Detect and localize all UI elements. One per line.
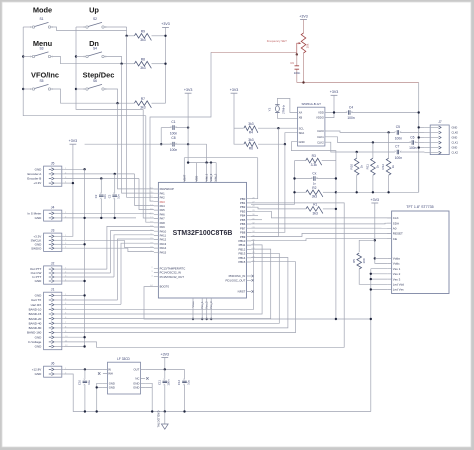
svg-text:VDD: VDD [194,176,198,182]
switch S4 [84,47,108,59]
junction vss [201,318,203,320]
svg-text:GND: GND [35,216,43,220]
no-connect [252,279,254,281]
junction pot bottom [302,81,304,83]
svg-text:C5: C5 [396,125,400,129]
svg-text:CLK2: CLK2 [317,140,324,144]
svg-text:3k3: 3k3 [140,66,145,70]
wire R3 right lead [322,160,336,162]
wire vdd pin drop [210,163,212,183]
junction c10 gnd [84,410,86,412]
resistor R11 [366,158,380,175]
resistor R12 [381,158,395,175]
svg-text:CLK0: CLK0 [317,129,324,133]
resistor R7 [134,97,151,110]
svg-text:RESET: RESET [393,232,403,236]
junction c12 gnd [183,410,185,412]
resistor R9 [134,29,151,42]
wire gnd bus right [418,83,420,193]
+3V3 power mcu b [230,88,239,93]
junction gnd bus a [418,111,420,113]
resistor R4 [244,122,258,135]
svg-text:10u: 10u [186,380,190,385]
junction encB cap [100,177,102,179]
svg-text:1k: 1k [391,165,395,169]
wire S4 left stub [76,56,86,58]
tft pin stubs [387,218,391,290]
wire tft a0 [251,227,392,229]
wire 3v3 out [164,358,166,370]
svg-text:3.3k: 3.3k [311,163,318,167]
wire +12V in [64,368,103,370]
capacitor C3 [112,192,117,199]
wire C6 to connector [415,142,425,144]
svg-text:3k3: 3k3 [248,138,253,142]
svg-text:LF 33CD: LF 33CD [117,357,130,361]
+3V3 power tft [371,198,380,203]
wire J3 gnd [64,243,85,245]
wire R8 right lead [152,63,166,65]
svg-text:Vdda: Vdda [393,257,400,261]
switch S3 [30,47,54,59]
no-connect [98,372,100,374]
svg-text:S2: S2 [93,17,97,21]
wire SCL row [258,127,298,129]
wire s meter to PA6 [64,212,154,215]
svg-text:+12.8V: +12.8V [32,368,42,372]
connector J6 [44,362,67,378]
wire pot bottom to ground bus [297,53,419,83]
capacitor C7 [395,150,402,155]
junction SCL [277,127,279,129]
wire J5 gnd [64,168,85,170]
junction Cx left [293,177,295,179]
wire col1 left bus [23,27,146,116]
wire S3 left stub [23,56,32,58]
connector J1 [44,288,69,350]
wire wiper to PA3 [150,52,211,201]
junction C1 right [187,126,189,128]
wire R9 net to PA2 [127,36,154,198]
svg-text:Uart RX: Uart RX [31,303,42,307]
wire si vdd [325,112,347,114]
svg-text:GND: GND [109,386,115,390]
junction reg out 3v3 [164,368,166,370]
svg-text:R8: R8 [141,57,145,61]
svg-text:100n: 100n [347,116,355,120]
wire clk load gnd rail [336,191,419,193]
wire reg gnd left drop [96,387,98,411]
wire Cx left lead [295,178,313,180]
wire gnd row J4 [64,217,136,219]
junction encA cap [114,173,116,175]
junction J7 gnd2 [418,136,420,138]
wire reg out [145,368,184,370]
resistor R5 [352,253,366,269]
svg-text:PB15: PB15 [238,260,245,264]
svg-text:BOOT0: BOOT0 [160,285,170,289]
wire vbat net [184,157,257,159]
svg-text:100n: 100n [395,136,403,140]
wire si gnd to rail [291,142,336,319]
connector J4 [44,206,67,222]
wire tft vss1 [371,268,387,270]
wire bus to PA pin [114,235,154,277]
junction S6 left [75,88,77,90]
wire vdd pin drop [206,163,208,183]
wire CLK0 row [325,131,395,132]
junction tft vss2 [370,273,372,275]
wire c12 bottom lead [184,385,186,412]
no-connect [252,275,254,277]
svg-text:J4: J4 [51,206,55,210]
junction vdd2 [210,161,212,163]
svg-text:3k3: 3k3 [140,106,145,110]
wire CLK1 row [325,137,411,143]
connector J7 CLK out [424,120,458,155]
svg-text:VFO/Inc: VFO/Inc [31,71,59,80]
svg-text:In Voltage: In Voltage [28,340,42,344]
wire R7 right lead [152,102,166,104]
svg-text:SDA: SDA [299,131,305,135]
svg-text:BAND-15: BAND-15 [29,312,42,316]
wire tft vdda [375,257,387,259]
no-connect [252,290,254,292]
wire vdd rail [188,162,216,164]
wire Cx right lead [316,178,336,180]
wire S5 left stub [23,88,32,90]
wire r5 to led vdd [359,269,387,284]
mcu left pin names [160,187,186,289]
junction J3 gnd [83,243,85,245]
svg-text:GND: GND [452,136,458,140]
junction clk1 load [372,141,374,143]
crystal Y2 27MHz [268,104,286,113]
wire in voltage loop [64,203,344,347]
svg-text:1k: 1k [359,165,363,169]
junction reg gnd left [96,410,98,412]
junction J2 gnd [83,280,85,282]
junction R9 left [125,35,127,37]
wire C3 bottom lead [114,198,116,218]
svg-text:100n: 100n [167,379,171,386]
junction C8 left [160,143,162,145]
svg-text:+3V3: +3V3 [184,88,193,92]
wire bus to PA pin [121,243,154,304]
svg-text:OUT: OUT [133,368,139,372]
wire R3 left lead [295,160,306,162]
wire pot wiper [211,51,297,53]
wire +3V3 pullup i2c [234,93,244,144]
wire R7 net to PA0 [118,103,154,189]
svg-text:BAND-20: BAND-20 [29,317,42,321]
wire band net [64,245,262,314]
wire R2 left lead [295,191,306,193]
wire PB0 up [251,158,258,199]
wire encoder A to PA4 [135,174,154,206]
switch S5 [30,79,54,91]
wire tft reset [251,233,392,236]
wire J5 3v3 stub [64,182,73,184]
svg-text:GND: GND [452,125,458,129]
svg-text:Cx: Cx [312,172,316,176]
wire S2 left [76,26,86,28]
svg-text:BAND-40: BAND-40 [29,321,42,325]
switch S6 [84,79,108,91]
svg-text:Encoder B: Encoder B [27,177,41,181]
svg-text:J7: J7 [438,120,442,124]
wire J1 gnd3 [64,346,85,348]
junction J1 gnd3 [83,345,85,347]
wire tft vss3 [371,278,387,280]
wire bus to PA pin [124,240,153,247]
capacitor C11 [163,379,168,386]
svg-text:GND: GND [35,335,43,339]
wire bus to PA pin [117,239,153,300]
svg-text:PC15/OSC32_OUT: PC15/OSC32_OUT [160,275,185,279]
svg-text:J2: J2 [51,261,55,265]
svg-text:R5: R5 [352,259,356,263]
wire R9 left lead [127,35,135,37]
svg-text:GND: GND [35,167,43,171]
svg-text:CLK: CLK [393,216,399,220]
svg-text:+3V3: +3V3 [330,90,339,94]
svg-text:J5: J5 [51,162,55,166]
svg-text:Y2: Y2 [268,107,272,111]
junction R12 gnd [387,191,389,193]
connector J5 [44,162,67,187]
wire swclk [64,239,125,241]
wire C5 to connector [400,131,425,133]
svg-text:+3V3: +3V3 [230,88,239,92]
wire bottom gnd rail [64,374,371,412]
wire J7 gnd2 [419,137,425,139]
svg-text:In S Meter: In S Meter [27,211,41,215]
connector J1 pin labels [27,294,42,349]
svg-text:+3V3: +3V3 [69,139,78,143]
junction J5 3v3 [72,182,74,184]
mcu pin numbers left [150,188,153,288]
capacitor C2 [99,192,104,199]
capacitor C12 [182,379,187,386]
wire band net [64,262,296,333]
svg-text:C7: C7 [395,145,399,149]
mcu vss drops [193,298,211,319]
svg-text:CLK1: CLK1 [317,135,324,139]
mcu U1 STM32F100C8T6B [158,182,246,298]
svg-text:C3: C3 [107,194,111,198]
wire R12 bottom lead [388,175,390,192]
wire band net [64,249,271,319]
wire c10 bottom lead [84,385,86,412]
+3V3 power switches [161,22,170,27]
svg-text:C4: C4 [349,106,353,110]
wire uart tx [64,299,118,301]
svg-text:S6: S6 [93,79,97,83]
wire swdio [64,247,128,249]
svg-text:100n: 100n [170,131,178,135]
wire bus to PA pin [110,231,153,273]
resistor R8 [134,57,151,70]
+3V3 power J5 [69,139,78,144]
wire CLK2 row [325,142,395,152]
wire encoder A [64,173,135,175]
svg-text:+3.3V: +3.3V [33,181,41,185]
wire gnd bus left [84,169,86,346]
svg-text:S1: S1 [39,17,43,21]
svg-text:Si5351A-B-GT: Si5351A-B-GT [301,102,321,106]
wire out ptt [64,268,107,270]
svg-text:C8: C8 [171,136,175,140]
wire R12 top lead [388,132,390,158]
svg-text:XB: XB [299,116,303,120]
no-connect [146,377,148,379]
wire C1-C8 left join [160,128,162,145]
junction S3 left [22,55,24,57]
wire tft gnd drop [370,269,372,412]
svg-text:BAND-10: BAND-10 [29,307,42,311]
junction pot wiper [296,53,298,55]
svg-text:C6: C6 [410,136,414,140]
mcu pin numbers right [252,197,255,262]
svg-text:C9: C9 [290,61,294,65]
capacitor C10 [83,379,88,386]
svg-text:100n: 100n [294,71,301,75]
svg-text:C12: C12 [177,379,181,385]
wire col2 left bus [76,27,143,109]
wire SDA jog [285,133,298,145]
svg-text:R11: R11 [366,164,370,170]
svg-text:100n: 100n [409,146,417,150]
wire reg gnd right drop [151,387,153,411]
svg-text:100n: 100n [170,148,178,152]
svg-text:Mode: Mode [33,6,52,15]
svg-text:+3V3: +3V3 [371,198,380,202]
wire col1 to PA8 [146,116,154,223]
svg-text:BAND-80: BAND-80 [29,326,42,330]
wire C1 right lead [176,127,189,129]
wire c12 top lead [184,369,186,379]
svg-text:CE: CE [393,237,397,241]
junction clk2 load [356,151,358,153]
wire reg gnd right join [145,383,152,387]
svg-text:1k: 1k [376,165,380,169]
junction tft vdda [374,257,376,259]
capacitor C4 [346,110,353,115]
wire R8 left lead [122,63,135,65]
svg-text:S5: S5 [39,79,43,83]
wire C8 to vdd rail [206,144,208,162]
junction si vdd [333,111,335,113]
wire band net [64,258,288,328]
wire J1 gnd2 [64,336,85,338]
wire out cw [64,272,111,274]
wire tft led vss [371,289,387,291]
wire SCL to PB9 [251,128,278,236]
svg-text:R7: R7 [141,97,145,101]
junction C2 gnd [100,217,102,219]
svg-text:Frequency SET: Frequency SET [267,39,287,43]
wire SDA to PB8 [251,144,285,232]
svg-text:GND: GND [133,386,139,390]
wire R1 right lead [323,208,336,210]
mcu top pin labels [182,173,217,181]
svg-text:SWDIO: SWDIO [31,246,42,250]
wire bus to PA pin [128,248,154,251]
resistor R1 [306,207,323,214]
wire J7 gnd1 [419,126,425,128]
junction R2 right [335,191,337,193]
svg-text:J1: J1 [51,288,55,292]
potentiometer RV1 Frequency SET [267,33,310,55]
svg-text:+3V3: +3V3 [161,352,170,356]
svg-text:Vdd_2: Vdd_2 [209,173,213,181]
wire C1 left lead [161,127,171,129]
wire r4 left lead [234,127,244,129]
wire vbat drop [183,158,185,183]
svg-text:Vdd_3: Vdd_3 [213,173,217,181]
wire S1 left [23,26,32,28]
+3V3 power pot [299,14,308,19]
junction R1 right [335,208,337,210]
svg-text:J3: J3 [51,229,55,233]
wire PB5 stub [251,219,262,221]
wire c11 bottom lead [164,385,166,412]
svg-text:GND: GND [35,294,43,298]
svg-text:10k: 10k [306,43,310,48]
junction tft vss3 [370,278,372,280]
junction R8 right [164,63,166,65]
wire band net [64,241,254,310]
svg-text:27MHz: 27MHz [281,104,285,113]
wire C8 right rail [161,143,206,145]
wire gnd to caps left [85,143,162,145]
op-amp U3 Si5351A-B-GT [298,102,325,146]
mcu bottom pin labels [191,301,213,309]
capacitor C6 [409,140,416,145]
wire XB [277,113,297,118]
wire tft ce [251,239,392,241]
svg-text:GND: GND [35,372,43,376]
wire C2 bottom lead [100,198,102,218]
junction R9 right [164,35,166,37]
svg-text:Vss 2: Vss 2 [393,272,401,276]
junction C3 gnd [114,217,116,219]
svg-text:C10: C10 [78,379,82,385]
svg-text:Vss 3: Vss 3 [393,277,401,281]
svg-text:100n: 100n [395,156,403,160]
svg-text:Led Vss: Led Vss [393,288,404,292]
wire S1 to R9 [51,27,127,36]
wire in ptt [64,276,114,278]
wire J2 gnd [64,280,85,282]
wire XA [277,98,297,112]
wire tft clk [251,211,392,218]
junction S4 left [75,55,77,57]
svg-text:+3V3: +3V3 [161,22,170,26]
svg-text:BAND-160: BAND-160 [27,331,42,335]
svg-text:C2: C2 [94,194,98,198]
svg-text:Uart TX: Uart TX [31,298,41,302]
svg-text:VBAT: VBAT [182,174,186,181]
wire R11 top lead [372,143,374,159]
svg-text:NC: NC [135,377,139,381]
junction gnd bus J4 [83,217,85,219]
svg-text:INH: INH [108,372,113,376]
wire band net [64,253,279,323]
svg-text:C1: C1 [171,120,175,124]
svg-text:10u: 10u [87,380,91,385]
